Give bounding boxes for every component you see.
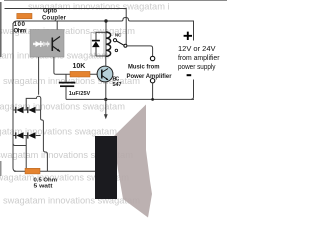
wire: BC547 collector up to relay coil [105,57,107,67]
svg-text:10K: 10K [73,63,86,70]
capacitor C1 1uF/25V [59,74,76,99]
wire: bottom bridge row [13,135,41,137]
wire: minus terminal to rail C [191,80,194,100]
transistor Q1 BC547 [97,66,113,82]
node: emitter junction [104,98,107,101]
wire: bridge right side down to 0.5 ohm line [41,110,48,171]
terminal: music input top [150,56,154,60]
relay flyback diode D5 box [91,32,104,56]
svg-text:5 watt: 5 watt [34,184,53,190]
svg-text:1uF/25V: 1uF/25V [69,91,91,97]
svg-text:from amplifier: from amplifier [178,53,220,62]
svg-text:Music from: Music from [128,64,160,71]
diode D5 [92,32,100,56]
wire: top bridge row [13,109,41,111]
svg-text:NC: NC [115,32,122,37]
wire: down to speaker with arrow [105,99,107,114]
left border edge [0,2,2,57]
resistor R3 0.5 Ohm 5 watt [25,168,40,174]
resistor R1 100 Ohm [17,13,32,18]
svg-text:0.5 Ohm: 0.5 Ohm [34,177,58,183]
speaker cone [113,105,152,218]
wire: opto collector pin to +V rail [56,21,58,30]
ground rail C [66,98,194,100]
resistor R2 10K [70,71,90,77]
wire: bridge tap to 0.5 ohm left [25,136,27,172]
wire: bottom terminal to rail C [152,83,154,100]
speaker magnet box [95,136,117,199]
relay contact NO [115,49,118,52]
opto LED symbol [33,41,50,47]
relay pole lever [117,41,124,45]
opto coupler U1 box [30,30,64,58]
bridge diode D1 [16,107,24,114]
relay RL1 coil [106,21,111,57]
wire: diode to coil top/bottom [96,31,106,33]
node: coil junction on +V rail [104,19,107,22]
wire: speaker line with 0.5 ohm [14,170,95,172]
bridge diode D3 [16,132,24,139]
svg-text:Ohm: Ohm [14,27,27,34]
wire: BC547 emitter down to rail C [105,82,107,100]
wire: tap from bridge with hop joining LED cathode [26,96,41,110]
watermark text [0,2,170,206]
bridge diode D4 [28,132,36,139]
wire: pole to amp terminal [127,46,153,56]
wire: left vertical rail [13,23,16,171]
wire: top rail A to relay pole [5,9,127,45]
svg-text:12V or 24V: 12V or 24V [178,44,216,53]
wire: left rail stub to tap [13,143,26,146]
svg-text:Coupler: Coupler [42,15,67,21]
svg-text:Opto: Opto [43,9,57,15]
svg-text:swagatam innovations swagatam: swagatam innovations swagatam [3,196,140,206]
label: + supply [184,32,192,40]
svg-text:power supply: power supply [178,62,216,71]
bridge diode D2 [28,107,36,114]
wire: opto LED cathode pin down [38,57,40,95]
top border edge [4,0,227,2]
wire: +V rail B with hop over pole wire [13,18,194,41]
opto phototransistor symbol [52,37,60,52]
wire: opto emitter pin down to 10K line [54,57,97,74]
label: - supply [187,74,192,76]
svg-text:547: 547 [113,82,122,88]
svg-text:Power Amplifier: Power Amplifier [127,73,173,80]
terminal: music input bottom [150,79,154,83]
